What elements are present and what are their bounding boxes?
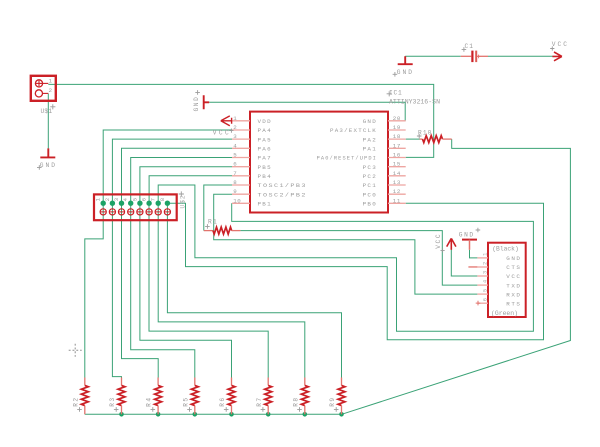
svg-text:3: 3 — [233, 133, 237, 140]
wire U$2 pin2 to R3 — [112, 203, 121, 377]
capacitor C1 — [461, 55, 472, 57]
svg-text:R5: R5 — [182, 396, 189, 406]
svg-text:TOSC2/PB2: TOSC2/PB2 — [258, 191, 307, 198]
wire R10 to bottom resistor rail — [85, 139, 571, 414]
node junction rail/R bottom — [193, 412, 198, 417]
svg-text:VCC: VCC — [435, 233, 442, 249]
node junction rail/R bottom — [266, 412, 271, 417]
svg-text:2: 2 — [49, 87, 53, 94]
pin 4 PA6 — [232, 147, 250, 149]
svg-text:PC0: PC0 — [363, 191, 377, 198]
svg-text:6: 6 — [141, 198, 148, 201]
svg-text:18: 18 — [393, 133, 401, 140]
serial pin 3 VCC — [477, 275, 488, 277]
pin 19 PA3/EXTCLK — [388, 129, 406, 131]
svg-text:GND: GND — [459, 232, 475, 239]
U$2 pin 4 — [128, 209, 134, 215]
svg-text:PB5: PB5 — [258, 164, 272, 171]
svg-text:PA1: PA1 — [363, 146, 377, 153]
wire TXD net: R1 to serial TXD — [240, 231, 477, 286]
wire PB1 net: IC pin10 around to U$2 pin7 — [158, 185, 533, 331]
IC U1 ATTINY3216-SN body — [250, 112, 388, 213]
VCC arrow at serial connector — [447, 238, 456, 249]
wire U$2 pin1 to R2 — [85, 203, 103, 377]
pin 18 PA2 — [388, 138, 406, 140]
wire IC pin7 PB4 to U$2 pin6 — [149, 176, 232, 203]
pin 16 PA0/RESET/UPDI — [388, 157, 406, 159]
svg-text:GND: GND — [506, 255, 521, 262]
serial CTS stub extension — [468, 266, 477, 268]
wire PB0 net: IC pin11 around to U$2 pin8 — [167, 203, 543, 340]
pin 1 VDD — [232, 120, 250, 122]
resistor R1 — [204, 230, 213, 232]
wire C1 to VCC — [488, 55, 553, 57]
svg-text:12: 12 — [393, 188, 401, 195]
node junction U$2 pin3 — [119, 201, 124, 206]
svg-text:VCC: VCC — [506, 273, 521, 280]
wire serial GND — [470, 250, 478, 258]
U$1 pin 1 — [35, 80, 42, 87]
node junction U$2 pin8 — [165, 201, 170, 206]
U$2 pin 2 — [109, 209, 115, 215]
svg-text:R7: R7 — [256, 396, 263, 406]
resistor R5 — [194, 378, 196, 386]
svg-text:R1: R1 — [208, 219, 218, 226]
wire IC pin5 PA7 to U$2 pin4 — [131, 158, 232, 204]
pin 15 PC3 — [388, 166, 406, 168]
wire IC pin4 PA6 to U$2 pin3 — [122, 148, 233, 203]
wire IC pin2 PA4 to U$2 pin1 — [103, 130, 232, 203]
resistor R2 — [84, 378, 86, 386]
svg-text:7: 7 — [233, 170, 237, 177]
node junction rail/R bottom — [303, 412, 308, 417]
svg-text:19: 19 — [393, 124, 401, 131]
U$2 pin 1 — [100, 209, 106, 215]
svg-text:16: 16 — [393, 152, 401, 159]
wire U$1 pin2 to GND — [47, 94, 49, 149]
svg-text:R3: R3 — [109, 396, 116, 406]
svg-text:GND: GND — [193, 96, 200, 112]
node junction U$2 pin5 — [137, 201, 142, 206]
pin 14 PC2 — [388, 175, 406, 177]
svg-text:TXD: TXD — [506, 282, 521, 289]
svg-text:PA2: PA2 — [363, 136, 377, 143]
svg-text:PC2: PC2 — [363, 173, 377, 180]
pin 10 PB1 — [232, 202, 250, 204]
svg-text:RXD: RXD — [506, 291, 521, 298]
pin 8 TOSC1/PB3 — [232, 184, 250, 186]
serial pin 6 RTS — [477, 302, 488, 304]
svg-text:4: 4 — [482, 280, 488, 283]
origin crosshair mark — [69, 344, 82, 357]
ground symbol near U$1 — [40, 148, 55, 157]
svg-text:9: 9 — [233, 188, 237, 195]
connector U$2 body — [94, 194, 177, 220]
svg-text:8: 8 — [159, 198, 166, 201]
svg-text:11: 11 — [393, 197, 401, 204]
wire RXD net: IC pin9 to serial RXD — [214, 194, 478, 294]
svg-text:PB1: PB1 — [258, 201, 272, 208]
serial RTS no-connect cross — [476, 301, 481, 306]
resistor R8 — [304, 378, 306, 386]
svg-text:1: 1 — [49, 77, 53, 84]
svg-text:R6: R6 — [219, 396, 226, 406]
svg-text:PB4: PB4 — [258, 173, 272, 180]
svg-text:PC3: PC3 — [363, 164, 377, 171]
svg-text:2: 2 — [104, 198, 111, 201]
svg-text:6: 6 — [482, 298, 488, 301]
svg-text:PA7: PA7 — [258, 155, 272, 162]
wire GND net to IC pin20 — [209, 102, 405, 121]
svg-text:8: 8 — [233, 179, 237, 186]
wire U$2 pin6 to R7 — [149, 203, 268, 377]
VCC arrow top right — [552, 52, 562, 61]
pin 12 PC0 — [388, 193, 406, 195]
connector U$1 body — [31, 76, 56, 101]
svg-text:(Green): (Green) — [491, 310, 518, 317]
wire U$2 pin5 to R6 — [140, 203, 232, 377]
svg-text:GND: GND — [363, 118, 377, 125]
svg-text:VDD: VDD — [258, 118, 272, 125]
node junction U$2 pin6 — [146, 201, 151, 206]
svg-text:TOSC1/PB3: TOSC1/PB3 — [258, 182, 307, 189]
svg-text:GND: GND — [40, 162, 57, 169]
svg-text:VCC: VCC — [552, 41, 569, 48]
svg-text:4: 4 — [233, 142, 237, 149]
svg-text:14: 14 — [393, 170, 401, 177]
svg-text:5: 5 — [233, 152, 237, 159]
svg-text:4: 4 — [122, 197, 129, 201]
node junction rail/R bottom — [229, 412, 234, 417]
node junction rail/R bottom — [156, 412, 161, 417]
U$2 pin 3 — [118, 209, 124, 215]
wire U$2 pin8 to R9 — [167, 203, 341, 377]
svg-text:R9: R9 — [329, 396, 336, 406]
svg-text:15: 15 — [393, 161, 401, 168]
resistor R6 — [231, 378, 233, 386]
U$2 pin 7 — [155, 209, 161, 215]
svg-text:U$1: U$1 — [41, 108, 53, 115]
svg-text:(Black): (Black) — [492, 246, 519, 253]
serial pin 2 CTS — [477, 266, 488, 268]
svg-text:20: 20 — [393, 115, 401, 122]
wire serial VCC — [451, 250, 477, 277]
pin 13 PC1 — [388, 184, 406, 186]
svg-text:PA0/RESET/UPDI: PA0/RESET/UPDI — [317, 155, 377, 162]
pin 2 PA4 — [232, 129, 250, 131]
svg-text:1: 1 — [95, 197, 102, 201]
svg-text:PA5: PA5 — [258, 136, 272, 143]
pin 9 TOSC2/PB2 — [232, 193, 250, 195]
wire U$2 pin4 to R5 — [131, 203, 195, 377]
wire IC pin3 PA5 to U$2 pin2 — [112, 139, 232, 203]
svg-text:2: 2 — [482, 262, 488, 265]
svg-text:CTS: CTS — [506, 264, 521, 271]
wire UPDI net: U$1 pin1 to IC pin16 — [48, 84, 433, 157]
svg-text:1: 1 — [482, 253, 488, 256]
resistor R7 — [267, 378, 269, 386]
U$2 pin 6 — [146, 209, 152, 215]
node junction U$2 pin7 — [156, 201, 161, 206]
serial pin 1 GND — [477, 257, 488, 259]
pin 11 PB0 — [388, 202, 406, 204]
VCC arrow at IC pin 1 — [221, 116, 232, 126]
svg-text:PA6: PA6 — [258, 146, 272, 153]
svg-text:5: 5 — [482, 289, 488, 292]
pin 17 PA1 — [388, 147, 406, 149]
svg-text:IC1: IC1 — [389, 90, 403, 97]
svg-text:17: 17 — [393, 142, 401, 149]
pin 3 PA5 — [232, 138, 250, 140]
resistor R4 — [157, 378, 159, 386]
svg-text:3: 3 — [113, 198, 120, 201]
wire IC pin18 PA2 to R10 — [406, 138, 420, 140]
pin 20 GND — [388, 120, 406, 122]
svg-text:PA3/EXTCLK: PA3/EXTCLK — [330, 127, 377, 134]
svg-text:R4: R4 — [146, 396, 153, 406]
svg-text:PC1: PC1 — [363, 182, 377, 189]
svg-text:GND: GND — [397, 69, 414, 76]
pin 7 PB4 — [232, 175, 250, 177]
ground symbol at serial connector — [462, 239, 477, 241]
connector serial header body — [488, 243, 526, 317]
svg-text:2: 2 — [233, 124, 237, 131]
svg-text:R10: R10 — [418, 129, 432, 136]
ground symbol rotated, GND net of IC — [204, 95, 210, 109]
svg-text:ATTINY3216-SN: ATTINY3216-SN — [389, 99, 440, 106]
svg-text:R8: R8 — [292, 396, 299, 406]
U$2 pin 5 — [137, 209, 143, 215]
ground symbol near C1 — [398, 56, 413, 64]
svg-text:3: 3 — [482, 271, 488, 274]
node junction U$2 pin4 — [128, 201, 133, 206]
svg-text:10: 10 — [233, 197, 241, 204]
resistor R9 — [341, 378, 343, 386]
svg-text:PA4: PA4 — [258, 127, 272, 134]
svg-text:VCC: VCC — [213, 130, 231, 137]
resistor R10 — [420, 138, 423, 140]
node junction rail/R bottom — [339, 412, 344, 417]
U$1 pin 2 — [35, 90, 42, 97]
svg-text:R2: R2 — [72, 396, 79, 406]
serial pin 5 RXD — [477, 293, 488, 295]
node junction rail/R bottom — [119, 412, 124, 417]
wire IC pin6 PB5 to U$2 pin5 — [140, 167, 232, 204]
svg-text:7: 7 — [150, 198, 157, 201]
wire GND to C1 — [405, 55, 461, 57]
svg-text:U$2: U$2 — [179, 194, 186, 208]
svg-text:6: 6 — [233, 161, 237, 168]
wire IC pin8 TOSC1/PB3 to R1 — [204, 185, 232, 231]
serial pin 4 TXD — [477, 284, 488, 286]
node junction U$2 pin2 — [110, 201, 115, 206]
wire U$2 pin3 to R4 — [122, 203, 159, 377]
node junction U$2 pin1 — [101, 201, 106, 206]
U$2 pin 8 — [164, 209, 170, 215]
pin 5 PA7 — [232, 157, 250, 159]
resistor R3 — [121, 378, 123, 386]
svg-text:1: 1 — [233, 115, 237, 122]
svg-text:RTS: RTS — [506, 300, 521, 307]
svg-text:13: 13 — [393, 179, 401, 186]
svg-text:PB0: PB0 — [363, 201, 377, 208]
pin 6 PB5 — [232, 166, 250, 168]
svg-text:5: 5 — [131, 198, 138, 201]
wire U$2 pin7 to R8 — [158, 203, 305, 377]
